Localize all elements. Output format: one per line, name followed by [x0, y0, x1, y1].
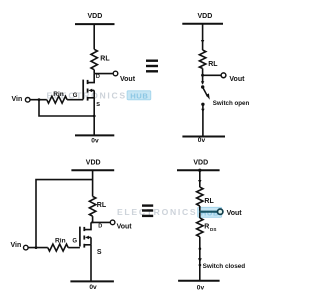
equivalence symbol (bottom) — [142, 206, 153, 216]
terminal circle Vout (blue, bottom-right) — [218, 209, 223, 214]
watermark HUB box (bottom) — [198, 207, 222, 217]
VDD rail bar (bottom-left) — [71, 169, 114, 171]
VDD rail bar (top-left) — [75, 23, 115, 25]
VDD rail bar (bottom-right) — [177, 169, 220, 171]
wire Vin to Rin — [28, 247, 48, 249]
source stub — [84, 244, 91, 246]
wire gate-pullup branch (up to VDD wire) — [36, 180, 93, 248]
wire RL to node — [199, 206, 201, 218]
node junction dot at Vin branch (bottom-left) — [35, 246, 38, 249]
body to source vertical — [90, 237, 92, 244]
current arrow (switch closed) — [198, 258, 202, 262]
switch bottom contact dot — [201, 103, 204, 106]
wire with arrow down to switch — [202, 75, 204, 83]
watermark HUB box (top) — [127, 91, 151, 100]
transistor Q1 (NMOS, top-left) — [83, 80, 94, 101]
switch top contact dot — [201, 85, 204, 88]
svg-text:Switch open: Switch open — [213, 100, 250, 107]
wire gate to Rin — [67, 99, 83, 101]
wire to Vout terminal — [203, 74, 221, 76]
node junction dot at source — [93, 115, 96, 118]
wire switch to 0v with arrow — [202, 104, 204, 136]
channel segments — [83, 227, 85, 231]
resistor RL (bottom-right) — [197, 187, 203, 206]
terminal circle Vin (bottom-left) — [24, 245, 29, 250]
svg-text:Rin: Rin — [55, 238, 66, 245]
svg-text:Switch closed: Switch closed — [203, 263, 246, 270]
ground rail 0v bar (bottom-right) — [178, 280, 220, 282]
wire VDD bar down — [199, 170, 201, 187]
svg-text:G: G — [72, 239, 77, 245]
svg-text:G: G — [73, 93, 78, 99]
source stub — [88, 97, 95, 99]
node dot at VDD (bottom-right) — [198, 169, 201, 172]
current arrow (bottom-right, below VDD) — [198, 180, 201, 184]
svg-text:0v: 0v — [197, 285, 205, 292]
switch blade (open) — [203, 88, 208, 97]
body to source vertical — [93, 90, 95, 97]
svg-text:RL: RL — [100, 55, 110, 62]
wire RL to Vout node — [202, 68, 204, 75]
svg-text:RL: RL — [97, 202, 107, 209]
svg-text:0v: 0v — [198, 137, 206, 144]
ground rail 0v bar (top-left) — [75, 134, 114, 136]
ground rail 0v bar (bottom-left) — [70, 280, 114, 282]
wire drain (junction down to D stub) — [88, 74, 95, 83]
node: Vout wire (bottom-left) — [91, 221, 110, 223]
svg-text:Vout: Vout — [120, 76, 136, 83]
svg-text:R: R — [204, 223, 209, 230]
terminal circle Vout (top-right) — [221, 73, 226, 78]
svg-text:VDD: VDD — [86, 160, 101, 167]
svg-text:RL: RL — [204, 198, 214, 205]
terminal circle Vout (bottom-left) — [110, 220, 115, 225]
svg-text:S: S — [96, 102, 100, 108]
gate line — [79, 227, 81, 247]
wire source down to 0v — [90, 245, 92, 282]
svg-text:0v: 0v — [91, 137, 99, 144]
resistor Rin (bottom-left) — [48, 244, 68, 251]
wire RL to Vout node — [91, 216, 93, 222]
body stub with arrow — [92, 89, 95, 91]
wire drain down to stub — [84, 222, 91, 229]
svg-text:DS: DS — [210, 227, 216, 232]
resistor Rin (top-left) — [47, 96, 67, 103]
resistor RL (bottom-left) — [89, 196, 95, 216]
transistor Q2 (NMOS, bottom-left) — [80, 227, 91, 248]
svg-text:D: D — [98, 224, 102, 230]
wire gate to Rin — [68, 247, 80, 249]
svg-text:Vout: Vout — [229, 76, 245, 83]
current arrow (top-right, below VDD) — [201, 40, 204, 44]
svg-text:Vout: Vout — [227, 210, 243, 217]
wire Vin to Rin — [30, 99, 47, 101]
svg-text:ELECTRONICS: ELECTRONICS — [117, 207, 197, 217]
svg-text:VDD: VDD — [198, 13, 213, 20]
svg-text:HUB: HUB — [130, 91, 148, 100]
channel segments — [87, 80, 89, 84]
node: Vout junction (top-left) — [94, 73, 113, 75]
switch closed: bottom contact dot — [199, 264, 202, 267]
wire VDD bar down — [202, 24, 204, 50]
wire Vout (blue, bottom-right) — [199, 211, 217, 213]
svg-text:Vin: Vin — [12, 96, 23, 103]
wire RDS down — [199, 237, 201, 281]
wire source down to 0v — [93, 98, 95, 136]
wire RL to Vout node — [93, 70, 95, 74]
equivalence symbol (top) — [146, 61, 158, 72]
svg-text:VDD: VDD — [193, 159, 208, 166]
svg-text:D: D — [96, 74, 100, 80]
resistor RL (top-right) — [199, 50, 205, 68]
svg-text:VDD: VDD — [88, 13, 103, 20]
body stub with arrow — [88, 236, 91, 238]
svg-text:Vin: Vin — [11, 242, 22, 249]
svg-text:0v: 0v — [89, 284, 97, 291]
svg-text:HUB: HUB — [201, 209, 219, 218]
VDD rail bar (top-right) — [182, 23, 223, 25]
wire VDD bar to RL — [93, 24, 95, 49]
node junction dot at Vin branch — [38, 98, 41, 101]
switch closed: top contact dot — [199, 247, 202, 250]
wire feedback branch down and right to source — [39, 100, 94, 116]
ground rail 0v bar (top-right) — [182, 136, 225, 138]
wire VDD bar down to RL — [92, 170, 94, 196]
resistor RDS (bottom-right) — [197, 218, 203, 237]
svg-text:S: S — [97, 249, 102, 256]
svg-text:Vout: Vout — [117, 224, 133, 231]
svg-text:Rin: Rin — [53, 91, 64, 98]
svg-text:RL: RL — [208, 61, 218, 68]
terminal circle Vin (top-left) — [25, 98, 30, 103]
gate line — [82, 80, 84, 100]
resistor RL (top-left) — [91, 49, 97, 69]
terminal circle Vout (top-left) — [113, 71, 118, 76]
node dot Vout junction (top-right) — [201, 74, 204, 77]
